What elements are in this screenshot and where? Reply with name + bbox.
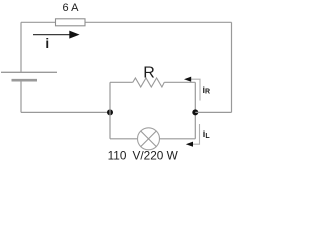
battery short plate (-) bbox=[12, 79, 38, 82]
svg-text:i: i bbox=[45, 36, 49, 51]
wire right side (top corner down) bbox=[231, 22, 233, 112]
wire top left (battery to fuse) bbox=[21, 21, 56, 23]
wire right stub (node B vertical) bbox=[194, 82, 196, 139]
battery long plate (+) bbox=[1, 71, 57, 73]
wire left upper (top wire down to battery) bbox=[20, 22, 22, 72]
wire top right (fuse to right corner) bbox=[85, 21, 232, 23]
svg-text:6 A: 6 A bbox=[63, 2, 80, 14]
node B (right junction dot) bbox=[192, 109, 198, 115]
svg-text:R: R bbox=[143, 65, 155, 82]
wire middle right (node B to right wire) bbox=[195, 111, 231, 113]
svg-text:iR: iR bbox=[203, 85, 211, 96]
svg-text:iL: iL bbox=[203, 129, 211, 140]
resistor R bbox=[110, 78, 195, 87]
wire left lower (battery down) bbox=[20, 81, 22, 112]
wire left stub (node A vertical) bbox=[109, 82, 111, 139]
node A (left junction dot) bbox=[107, 109, 113, 115]
current arrow iR (hook) bbox=[184, 77, 200, 101]
lamp L (circle with X) bbox=[110, 128, 195, 150]
current arrow i bbox=[33, 31, 80, 39]
current arrow iL (hook) bbox=[186, 124, 200, 147]
fuse F1 (6 A) bbox=[56, 19, 86, 26]
wire middle left (battery to node A) bbox=[21, 111, 110, 113]
svg-text:110V/220 W: 110V/220 W bbox=[108, 148, 179, 162]
